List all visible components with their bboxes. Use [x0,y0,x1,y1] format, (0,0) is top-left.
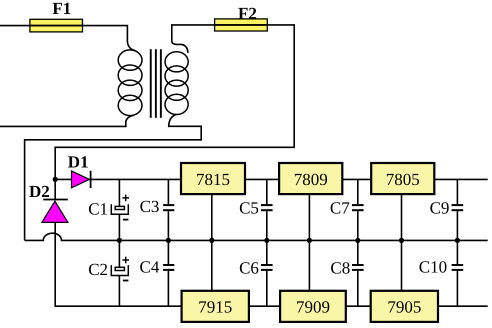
wire: bottom rail 7905 to output [438,305,488,307]
svg-text:D2: D2 [29,182,50,201]
transformer T1 secondary winding [165,52,188,115]
wire: 7809/7909 ground column [308,194,310,291]
svg-text:7905: 7905 [387,298,421,317]
svg-text:7815: 7815 [196,170,230,189]
fuse F1 [30,19,83,32]
capacitor C2 (electrolytic) [111,257,129,307]
regulator U3 7805 [371,163,434,194]
diode D1 [72,171,91,188]
svg-text:C4: C4 [140,257,160,276]
junction dots on mid rail [117,238,122,243]
svg-text:C1: C1 [88,200,108,219]
svg-text:F1: F1 [52,0,71,18]
fuse F2 [215,19,268,31]
capacitor C9 [452,179,464,264]
wire: secondary top lead through F2 and down right side to node A [55,25,294,200]
wire: top rail 7809 to 7805 [342,178,371,180]
capacitor C6 [261,265,273,306]
capacitor C10 [452,265,464,306]
svg-text:7809: 7809 [294,170,328,189]
svg-text:C10: C10 [419,258,447,277]
capacitor C8 [352,265,364,306]
wire: AC line return from transformer primary bottom [0,115,134,126]
svg-text:C9: C9 [430,199,450,218]
wire: bottom rail 7909 to 7905 [346,305,371,307]
svg-text:D1: D1 [68,152,89,171]
svg-text:C6: C6 [239,258,259,277]
wire: secondary bottom lead down left side to mid rail [25,114,202,240]
wire: mid (0V) rail with hop over D2 leg [25,233,488,240]
svg-text:7909: 7909 [296,298,330,317]
transformer T1 primary winding [118,50,142,116]
transformer T1 core [150,49,162,118]
regulator U4 7915 [182,291,249,322]
capacitor C4 [163,265,174,306]
svg-text:7915: 7915 [198,298,232,317]
svg-text:C7: C7 [330,199,350,218]
wire: AC line in, through F1 to transformer primary top [0,26,135,51]
capacitor C3 [163,179,174,264]
capacitor C1 (electrolytic) [111,179,129,267]
node A junction dot (D1/D2) [53,177,58,182]
svg-text:C2: C2 [88,260,108,279]
wire: F1 through-line [30,25,83,27]
wire: F2 through-line [215,24,268,26]
svg-text:F2: F2 [238,4,257,23]
regulator U5 7909 [280,291,346,322]
diode D2 [42,200,68,223]
svg-text:C3: C3 [140,197,160,216]
capacitor C7 [352,179,364,264]
wire: top rail 7805 to output [434,178,487,180]
regulator U2 7809 [279,163,342,194]
svg-text:C8: C8 [330,258,350,277]
wire: D2 leg down to negative rail, bottom rail to 7915 [55,222,181,306]
wire: top rail 7815 to 7809 [245,178,279,180]
regulator U6 7905 [371,291,438,322]
capacitor C5 [261,179,273,264]
wire: bottom rail 7915 to 7909 [249,305,280,307]
svg-text:7805: 7805 [386,170,420,189]
wire: top rail node A to 7815 [55,178,181,180]
wire: 7815/7915 ground column [211,194,213,291]
svg-text:C5: C5 [239,198,259,217]
wire: 7805/7905 ground column [401,194,403,291]
regulator U1 7815 [181,163,245,194]
